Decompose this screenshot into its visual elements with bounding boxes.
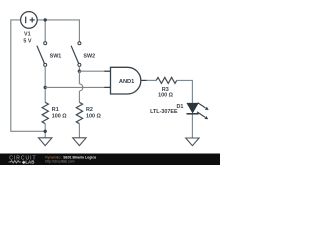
LED light arrow 1 <box>198 103 209 110</box>
LED light arrow 2 <box>197 112 208 120</box>
svg-text:SW2: SW2 <box>83 54 95 60</box>
node: junction dot bottom rail <box>44 130 47 133</box>
node: junction dot top rail <box>44 18 47 21</box>
wire: R2 bottom to ground <box>78 124 80 138</box>
wire: R1 bottom to node <box>44 124 46 138</box>
wire: SW1 branch to AND gate lower input <box>45 86 110 88</box>
wire: battery plus to top node and over to SW2 drop <box>37 20 79 42</box>
svg-text:SW1: SW1 <box>50 54 62 60</box>
ground under R2 <box>73 138 86 146</box>
node: junction dot SW2 branch <box>78 70 81 73</box>
svg-text:R2: R2 <box>86 107 93 113</box>
wire: hop down to R2 <box>78 91 80 102</box>
ground under R1 <box>39 138 52 146</box>
wire: SW2 junction down to hop <box>78 71 80 84</box>
wire: SW2 bottom down to junction <box>78 66 80 71</box>
LED D1 cathode bar <box>187 113 199 115</box>
LED D1 triangle <box>187 103 198 112</box>
svg-text:◆LAB: ◆LAB <box>21 159 34 164</box>
wire: R3 to LED corner <box>177 80 193 103</box>
svg-text:100 Ω: 100 Ω <box>158 92 173 98</box>
wire: top node down to SW1 <box>44 20 46 42</box>
wire: gate output stub <box>141 79 147 81</box>
footer bar <box>0 154 220 166</box>
svg-text:LTL-307EE: LTL-307EE <box>150 109 178 115</box>
wire: gate output to R3 <box>147 79 157 81</box>
wire: SW2 branch to AND gate upper input <box>79 70 110 72</box>
resistor R1 <box>42 102 48 123</box>
svg-text:AND1: AND1 <box>119 79 135 85</box>
node: junction dot SW1 branch <box>44 86 47 89</box>
ground under D1 <box>186 138 199 146</box>
svg-text:100 Ω: 100 Ω <box>52 113 67 119</box>
resistor R3 <box>156 77 177 83</box>
wire: hop over lower input wire <box>79 84 83 91</box>
resistor R2 <box>76 102 82 123</box>
wire: SW1 bottom down to R1 <box>44 66 46 102</box>
svg-text:R1: R1 <box>52 107 59 113</box>
voltage source V1 <box>21 12 38 29</box>
switch SW2 <box>71 42 81 67</box>
footer CircuitLab logo <box>9 155 37 164</box>
switch SW1 <box>37 42 47 67</box>
svg-text:100 Ω: 100 Ω <box>86 113 101 119</box>
AND gate AND1 input stubs <box>104 70 110 72</box>
wire: battery minus to left rail and bottom rail to R1 bottom node <box>11 20 45 131</box>
svg-text:5 V: 5 V <box>23 38 31 44</box>
AND gate AND1 <box>111 67 141 94</box>
svg-text:V1: V1 <box>24 32 31 38</box>
svg-text:http://circuitlab.com: http://circuitlab.com <box>45 159 74 163</box>
wire: LED to ground <box>191 115 193 139</box>
